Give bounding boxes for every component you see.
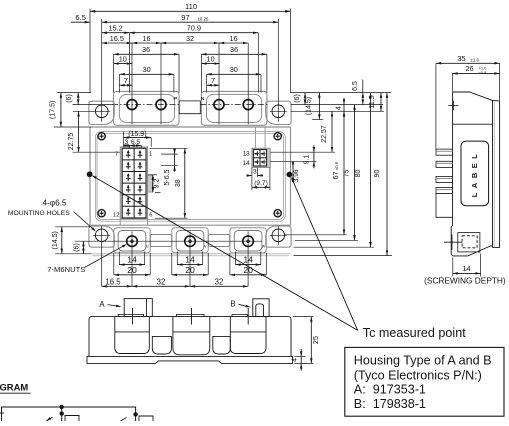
dim 22.75 left	[78, 111, 80, 152]
svg-text:5-6.5: 5-6.5	[164, 169, 171, 185]
dim 3 connector	[129, 145, 131, 148]
left terminal tick	[0, 412, 4, 414]
svg-text:(17.5): (17.5)	[50, 101, 57, 119]
front view top edge bumps	[118, 314, 143, 316]
svg-text:70.9: 70.9	[187, 24, 201, 33]
svg-text:10: 10	[207, 54, 215, 63]
svg-text:80: 80	[355, 170, 362, 178]
dim (14.5) left bottom	[61, 227, 63, 254]
svg-text:13: 13	[243, 151, 251, 158]
svg-text:9.2: 9.2	[153, 179, 160, 189]
control connector (left, 2x6 pins)	[120, 147, 147, 219]
dim (9.7) aux connector	[269, 168, 271, 191]
dim 4 right	[343, 98, 345, 105]
dim 67 right	[343, 111, 345, 235]
housing type text box	[345, 347, 504, 416]
svg-text:MOUNTING HOLES: MOUNTING HOLES	[8, 210, 70, 217]
svg-text:±0.5: ±0.5	[334, 161, 339, 170]
svg-text:7: 7	[124, 76, 128, 85]
svg-text:(Tyco Electronics P/N:): (Tyco Electronics P/N:)	[354, 368, 482, 382]
svg-text:30: 30	[230, 65, 238, 74]
dim (15.9) connector	[123, 132, 125, 147]
svg-text:(6): (6)	[74, 243, 81, 252]
case body outer rectangle	[90, 127, 291, 225]
dim 80 right	[370, 93, 372, 248]
bottom output tabs U V W	[114, 228, 150, 253]
svg-text:3: 3	[253, 168, 257, 175]
connector slot lines to case edge	[119, 219, 121, 226]
svg-text:22.75: 22.75	[68, 133, 75, 151]
svg-text:30: 30	[143, 65, 151, 74]
svg-text:GRAM: GRAM	[0, 382, 28, 393]
svg-text:6.5: 6.5	[131, 139, 140, 146]
circuit junction dots	[60, 405, 64, 409]
svg-text:11.5: 11.5	[369, 95, 376, 108]
svg-text:Housing Type of A and B: Housing Type of A and B	[354, 354, 492, 368]
svg-text:32: 32	[215, 277, 224, 286]
dim 36 left tab	[113, 54, 115, 92]
svg-text:14: 14	[243, 255, 253, 265]
dim (6) left bottom	[82, 241, 84, 254]
side view terminal pin tabs (4x)	[436, 149, 453, 155]
dim (6) right	[304, 93, 306, 105]
side view mounting axis cross	[444, 241, 462, 243]
svg-text:36: 36	[230, 45, 238, 54]
case inner rim (double line)	[95, 132, 285, 222]
svg-text:36: 36	[142, 45, 150, 54]
svg-text:u: u	[146, 243, 149, 248]
connector latch tab	[148, 175, 153, 192]
terminal lug B	[253, 299, 269, 317]
dim 110 overall width	[89, 9, 91, 93]
svg-text:P: P	[174, 96, 177, 101]
side view connector shroud block	[436, 194, 453, 218]
svg-text:7-M6NUTS: 7-M6NUTS	[47, 265, 85, 274]
svg-text:67: 67	[333, 172, 340, 180]
svg-text:Tc measured point: Tc measured point	[363, 326, 466, 340]
module body top tabs (gray case outline)	[114, 91, 180, 125]
side view inner horizontal line	[453, 123, 493, 125]
svg-text:35: 35	[457, 54, 465, 63]
svg-text:6: 6	[149, 212, 152, 218]
dim 75 right	[354, 105, 356, 241]
side view gray edge line	[493, 102, 495, 248]
dim 16.5 / 16 / 32 / 16 row	[102, 42, 132, 44]
top-left mounting pad	[89, 101, 114, 124]
left bottom extension lines	[55, 226, 90, 228]
front view pocket V	[173, 317, 210, 355]
Tc measured point dot left	[87, 171, 93, 177]
svg-text:6.5: 6.5	[75, 13, 86, 22]
dim 35 side view	[435, 63, 437, 150]
case corner screws (4x)	[98, 133, 105, 140]
right extension lines	[291, 92, 391, 94]
dim 97 mounting pitch	[102, 21, 279, 23]
aux connector (right, 2x2 pins)	[252, 148, 270, 167]
dim 9.1 right	[313, 145, 315, 152]
bottom terminal center line	[115, 240, 262, 242]
dim 6.5 right top	[362, 80, 364, 105]
top terminal screws M6 (4x bold circles)	[127, 100, 137, 110]
svg-text:6.5: 6.5	[352, 81, 359, 91]
svg-text:14: 14	[243, 160, 251, 167]
bottom-left mounting pad	[89, 226, 114, 247]
svg-text:32: 32	[157, 277, 166, 286]
front view pocket W	[230, 317, 266, 354]
svg-text:16.5: 16.5	[105, 277, 121, 286]
top-right mounting hole	[272, 105, 285, 118]
svg-text:20: 20	[185, 265, 195, 275]
svg-text:22.57: 22.57	[321, 125, 328, 143]
dim 14 x3 bottom	[118, 252, 120, 265]
aux connector slot lines to case edge	[254, 127, 256, 148]
svg-text:B: B	[230, 300, 235, 309]
top-left mounting hole	[95, 105, 108, 118]
svg-text:(15.9): (15.9)	[128, 131, 146, 138]
svg-text:±0.25: ±0.25	[198, 16, 210, 21]
front view valley wells	[152, 336, 171, 354]
svg-text:(6): (6)	[66, 94, 73, 103]
dim (14.5) right	[318, 93, 320, 120]
svg-text:16: 16	[230, 34, 238, 43]
Tc leader line from left dot	[93, 176, 358, 330]
svg-text:12: 12	[113, 212, 119, 218]
svg-text:14: 14	[185, 255, 195, 265]
svg-text:7: 7	[211, 76, 215, 85]
svg-text:(6): (6)	[294, 94, 301, 103]
dim 9.2 latch	[152, 175, 154, 193]
front view screw pins	[132, 308, 134, 325]
dim (6) left top	[77, 93, 79, 105]
front view body outline	[89, 317, 291, 357]
dim 22.57 right	[331, 111, 333, 152]
dim 70.9	[257, 33, 259, 93]
connector pin arrows	[127, 151, 129, 158]
bottom-right mounting pad	[266, 226, 291, 247]
left extension lines	[57, 92, 91, 94]
svg-text:38: 38	[175, 179, 182, 187]
svg-text:15.2: 15.2	[108, 24, 122, 33]
svg-text:14: 14	[462, 264, 470, 273]
wire drop at node	[61, 407, 63, 421]
Tc leader line from right dot	[292, 179, 358, 331]
svg-text:10: 10	[119, 54, 127, 63]
dim 11.5 right top	[380, 93, 382, 112]
front view pocket U	[115, 317, 150, 354]
igbt arrow mark 2	[121, 417, 127, 421]
dim 38 connector height	[150, 147, 188, 149]
svg-text:90: 90	[374, 170, 381, 178]
svg-text:97: 97	[181, 13, 189, 22]
dim 3 aux connector	[251, 168, 253, 191]
top tab nut pockets	[119, 94, 174, 122]
dim 6.5 left edge to hole	[71, 21, 90, 23]
bottom tab nut pockets	[118, 231, 146, 252]
svg-text:14: 14	[127, 255, 137, 265]
front view baseplate	[87, 356, 293, 363]
connector pin grid	[122, 148, 146, 218]
dim 30 right	[206, 74, 208, 92]
igbt arrow mark 1	[47, 417, 53, 421]
side view screw axis cross	[448, 105, 458, 107]
svg-text:110: 110	[185, 2, 197, 11]
svg-text:LABEL: LABEL	[470, 150, 479, 198]
svg-text:4: 4	[291, 358, 298, 362]
terminal lug A	[124, 299, 152, 317]
dim 20 x3 bottom	[113, 253, 115, 275]
svg-text:20: 20	[127, 265, 137, 275]
baseplate bottom edge	[90, 253, 291, 255]
bottom terminal screws (3x)	[127, 236, 138, 247]
svg-text:B: 179838-1: B: 179838-1	[354, 397, 426, 411]
dim 16.5 / 32 / 32 bottom	[102, 285, 132, 287]
dim 15.2	[128, 33, 130, 93]
top center notch between tabs	[179, 101, 200, 114]
gate box 2 (partial)	[139, 416, 153, 421]
dim 3.96	[292, 162, 294, 168]
svg-text:75: 75	[344, 170, 351, 178]
dim 6.5 connector	[140, 145, 142, 148]
bottom-right mounting hole	[272, 229, 285, 242]
dim 7 left	[120, 84, 133, 86]
dim 10 right	[201, 63, 219, 65]
LABEL box	[461, 141, 489, 206]
valleys between bottom tabs	[150, 234, 172, 246]
svg-text:9.1: 9.1	[304, 155, 311, 165]
dim (17.5) left	[60, 93, 62, 127]
gate box 1 (partial)	[65, 416, 79, 422]
bottom-left mounting hole	[95, 229, 108, 242]
svg-text:(9.7): (9.7)	[254, 180, 268, 187]
svg-text:(14.5): (14.5)	[306, 97, 313, 115]
svg-text:26: 26	[465, 64, 473, 73]
dim 26 side view	[451, 73, 453, 91]
top terminal center line (dash-dot)	[112, 104, 179, 106]
svg-text:4: 4	[335, 106, 342, 110]
svg-text:16: 16	[142, 34, 150, 43]
dim 14 screwing depth	[452, 258, 454, 277]
svg-text:±1.0: ±1.0	[471, 57, 480, 62]
dim 25 front view	[293, 316, 313, 318]
dim 10 left	[114, 63, 133, 65]
svg-text:1: 1	[149, 152, 152, 158]
side view body outline	[453, 92, 500, 247]
svg-text:−0.8: −0.8	[479, 70, 488, 75]
svg-text:4-φ6.5: 4-φ6.5	[43, 199, 67, 208]
dim 7 right	[207, 84, 220, 86]
dim 90 right	[386, 93, 388, 256]
svg-text:A: A	[99, 300, 105, 309]
svg-text:25: 25	[311, 336, 320, 344]
dim 4 front view	[295, 355, 306, 357]
dim 30 left	[119, 74, 121, 92]
svg-text:A: 917353-1: A: 917353-1	[354, 383, 426, 397]
svg-text:(14.5): (14.5)	[52, 231, 59, 249]
side view screw hole hidden (dashed)	[458, 233, 480, 252]
svg-text:16.5: 16.5	[110, 34, 124, 43]
svg-text:32: 32	[186, 34, 194, 43]
svg-text:3: 3	[124, 139, 128, 146]
svg-text:3.96: 3.96	[293, 169, 300, 182]
dim 5-6.5 pin pitch	[161, 153, 178, 155]
Tc measured point dot right	[287, 172, 293, 178]
circuit top bus wire	[2, 407, 136, 421]
dim 36 right tab	[200, 54, 202, 92]
top-right mounting pad	[266, 101, 291, 124]
svg-text:(SCREWING DEPTH): (SCREWING DEPTH)	[424, 276, 506, 286]
